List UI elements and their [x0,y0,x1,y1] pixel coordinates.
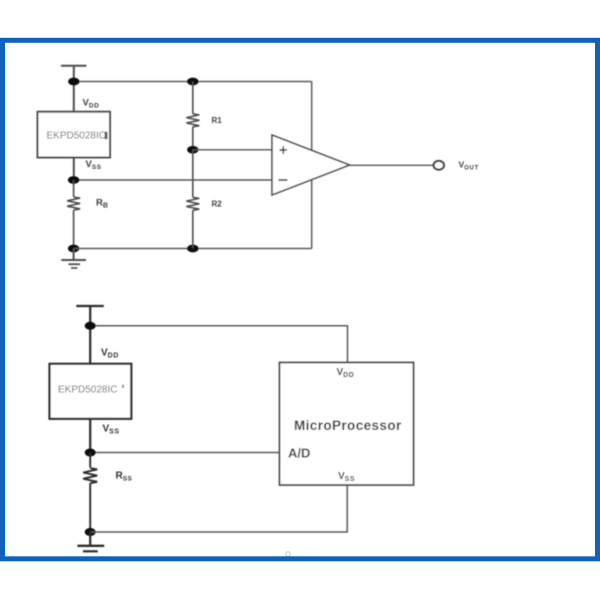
wire VSS rail to inverting input [74,179,272,181]
svg-text:EKPD5028IC: EKPD5028IC [58,385,117,396]
wire divider node to non-inverting input [193,149,272,151]
node ground junction (top circuit) [68,245,79,253]
wire IC bottom to A/D node [89,419,91,453]
svg-text:RB: RB [96,198,108,210]
wire VDD into IC box [73,82,75,112]
node R1/R2 divider [187,146,198,154]
artifact mark [286,552,290,556]
terminal Vout [434,161,444,170]
svg-text:R1: R1 [212,116,223,125]
wire top rail [74,81,312,83]
node VDD junction (bottom) [85,322,96,330]
svg-text:EKPD5028IC: EKPD5028IC [47,131,106,142]
wire A/D to microprocessor [90,452,279,454]
node ground junction (bottom circuit) [85,528,96,536]
ground (top circuit) [61,249,86,269]
cursor mark after U1 label [105,132,108,139]
svg-text:MicroProcessor: MicroProcessor [294,418,402,433]
svg-text:VSS: VSS [86,159,102,171]
ground (bottom circuit) [77,532,104,551]
node VDD junction [68,78,79,86]
wire IC bottom to VSS node [73,158,75,181]
wire VDD into IC box (bottom) [89,326,91,364]
svg-text:RSS: RSS [116,471,133,483]
IC U1 EKPD5028IC box [38,112,111,158]
wire top loop to microprocessor [90,326,347,363]
op-amp U2 non-inverting input + mark [280,146,288,154]
resistor R1 [186,82,199,150]
resistor R2 [186,150,199,249]
tick mark after U3 label [122,385,124,389]
power symbol VDD (top circuit) [61,66,87,82]
wire op-amp output [350,164,435,166]
node top of R1 column [187,78,198,86]
svg-text:VOUT: VOUT [459,160,479,172]
microprocessor U4 box [280,363,414,486]
op-amp U2 inverting input - mark [279,179,288,181]
node bottom of R2 column [187,245,198,253]
op-amp U2 [272,135,350,195]
wire bottom rail [74,248,312,250]
node VSS junction [68,176,79,184]
power symbol VDD (bottom circuit) [76,306,104,326]
IC U3 EKPD5028IC box (bottom) [50,364,132,419]
svg-text:VDD: VDD [83,98,100,110]
svg-text:R2: R2 [212,200,223,209]
resistor RSS [83,453,97,533]
resistor RB [67,180,80,249]
svg-text:A/D: A/D [288,446,310,461]
wire bottom loop to microprocessor [90,485,347,532]
svg-text:VDD: VDD [101,348,119,360]
wire right supply vertical [311,82,313,249]
svg-text:VSS: VSS [103,424,120,436]
node A/D junction [85,449,96,457]
